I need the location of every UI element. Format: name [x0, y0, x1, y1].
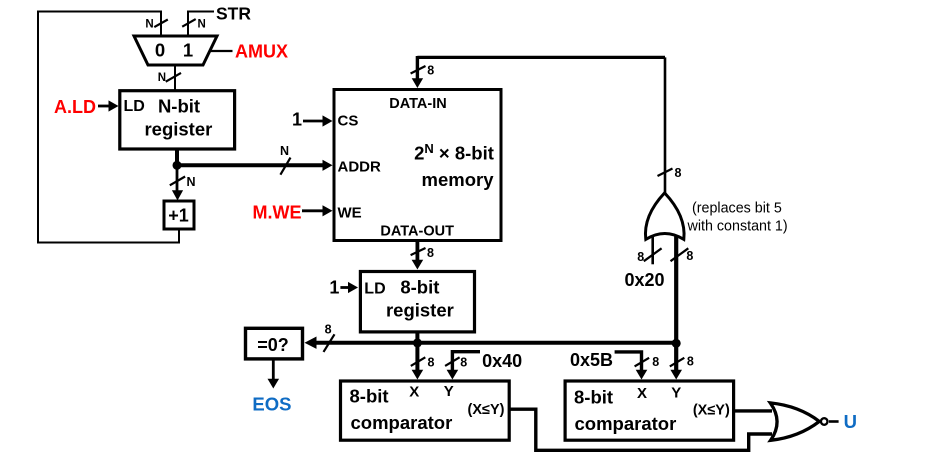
svg-text:8-bit: 8-bit: [574, 387, 613, 408]
slash 8 on comp1 Y: [445, 355, 467, 369]
svg-text:8-bit: 8-bit: [400, 277, 439, 298]
wire comparator 1 X input: [412, 343, 424, 380]
register B (8-bit register): [360, 272, 474, 332]
slash 8 on OR right input: [671, 248, 694, 263]
svg-text:U: U: [844, 411, 857, 432]
wire EOS arrow: [268, 360, 280, 389]
svg-text:ADDR: ADDR: [338, 158, 381, 175]
comparator 1 box: [341, 381, 510, 440]
slash 8 on comp2 X: [635, 355, 660, 369]
svg-text:N: N: [187, 175, 196, 189]
svg-text:1: 1: [292, 110, 302, 130]
svg-text:N: N: [145, 18, 153, 30]
wire comparator 2 output to NOR top input: [734, 409, 772, 412]
svg-text:with constant 1): with constant 1): [687, 219, 788, 235]
slash 8 on OR output: [658, 166, 682, 180]
slash N on mux output: [158, 72, 181, 84]
svg-text:1: 1: [329, 278, 339, 298]
arrow into =0?: [305, 337, 317, 349]
svg-text:1: 1: [183, 40, 193, 61]
slash N on +1 input: [170, 175, 196, 189]
slash 8 on comp2 Y: [670, 355, 694, 369]
svg-text:Y: Y: [444, 383, 454, 400]
svg-text:(replaces bit 5: (replaces bit 5: [692, 201, 782, 217]
svg-text:X: X: [409, 384, 419, 401]
register A (N-bit register): [120, 91, 235, 149]
svg-text:A.LD: A.LD: [54, 97, 96, 117]
wire CS input arrow: [303, 115, 333, 126]
svg-text:N: N: [198, 18, 206, 30]
slash N on mux input 1: [182, 18, 206, 30]
wire DATA-OUT to register 8: [412, 241, 424, 270]
wire OR right input from bus: [674, 236, 678, 343]
svg-text:=0?: =0?: [257, 335, 289, 355]
svg-text:8: 8: [637, 250, 644, 264]
slash N on ADDR bus: [280, 144, 291, 175]
wire STR to mux input 1: [188, 12, 214, 37]
svg-text:8: 8: [428, 355, 435, 369]
wire ADDR bus to memory: [177, 160, 333, 171]
svg-text:EOS: EOS: [252, 393, 291, 414]
svg-text:LD: LD: [124, 98, 145, 115]
svg-text:comparator: comparator: [575, 413, 677, 434]
svg-text:DATA-OUT: DATA-OUT: [380, 223, 454, 239]
junction dot at register B output: [413, 338, 422, 347]
svg-text:(X≤Y): (X≤Y): [468, 402, 505, 418]
svg-text:8-bit: 8-bit: [350, 386, 389, 407]
slash 8 near =0?: [324, 322, 335, 352]
svg-text:WE: WE: [338, 204, 362, 221]
wire WE input arrow: [302, 205, 333, 216]
svg-text:8: 8: [675, 166, 682, 180]
nor-gate U: [770, 403, 838, 440]
svg-text:X: X: [637, 385, 647, 402]
svg-text:N-bit: N-bit: [158, 96, 200, 117]
wire register B output bus: [415, 331, 419, 343]
wire feedback loop from +1 to AMUX input 0: [38, 12, 179, 243]
svg-text:8: 8: [325, 322, 332, 336]
wire mux output to register A: [174, 65, 176, 90]
wire junction down to +1: [172, 165, 183, 200]
svg-text:0: 0: [155, 40, 165, 61]
wire comparator 1 output to NOR (bottom path): [509, 409, 772, 450]
svg-text:0x20: 0x20: [625, 270, 665, 290]
slash 8 on DATA-IN: [411, 64, 435, 78]
note (replaces bit 5 with constant 1): [687, 201, 788, 235]
wire LD input arrow: [340, 282, 358, 293]
wire A.LD arrow: [98, 100, 119, 111]
svg-text:Y: Y: [671, 385, 681, 402]
wire comparator 2 X input from 0x5B: [615, 352, 648, 380]
mux AMUX trapezoid: [134, 36, 217, 65]
or-gate (bit-5 set, pointing up): [645, 193, 684, 240]
slash 8 on comp1 X: [411, 355, 435, 369]
wire AMUX callout: [209, 50, 233, 52]
wire register A output to junction: [175, 149, 179, 165]
svg-text:8: 8: [652, 355, 659, 369]
slash 8 on 0x20 input: [637, 248, 661, 264]
svg-text:DATA-IN: DATA-IN: [389, 96, 446, 112]
junction dot: [173, 161, 182, 170]
wire comparator 1 Y input from 0x40: [447, 352, 480, 380]
svg-text:0x40: 0x40: [482, 351, 522, 371]
svg-text:LD: LD: [364, 280, 385, 297]
slash N on mux input 0: [145, 18, 167, 30]
wire DATA-IN from OR gate (top run): [417, 56, 665, 59]
wire 0x20 input to OR: [651, 236, 654, 264]
junction dot at comparator 2 column: [672, 339, 681, 348]
svg-text:register: register: [386, 299, 454, 320]
svg-text:8: 8: [687, 355, 694, 369]
svg-text:8: 8: [686, 249, 693, 263]
svg-text:0x5B: 0x5B: [570, 350, 613, 370]
svg-text:8: 8: [427, 64, 434, 78]
wire OR output rise: [664, 57, 667, 194]
svg-text:+1: +1: [168, 206, 189, 226]
svg-text:CS: CS: [338, 113, 359, 130]
wire result bus horizontal: [316, 341, 677, 345]
svg-text:M.WE: M.WE: [253, 202, 302, 222]
svg-text:register: register: [144, 119, 212, 140]
svg-text:comparator: comparator: [351, 412, 453, 433]
wire comparator 2 Y input: [670, 343, 682, 380]
comparator 2 box: [565, 381, 734, 440]
=0? zero detector box: [246, 328, 303, 359]
+1 incrementer box: [164, 201, 194, 229]
svg-text:8: 8: [460, 355, 467, 369]
svg-text:AMUX: AMUX: [235, 42, 288, 62]
svg-text:STR: STR: [216, 3, 251, 23]
svg-text:N: N: [280, 144, 289, 158]
slash 8 on DATA-OUT: [411, 246, 434, 260]
memory box: [334, 90, 501, 241]
svg-text:N: N: [158, 72, 166, 84]
svg-text:8: 8: [427, 246, 434, 260]
svg-text:(X≤Y): (X≤Y): [693, 402, 730, 418]
svg-text:memory: memory: [422, 169, 495, 190]
